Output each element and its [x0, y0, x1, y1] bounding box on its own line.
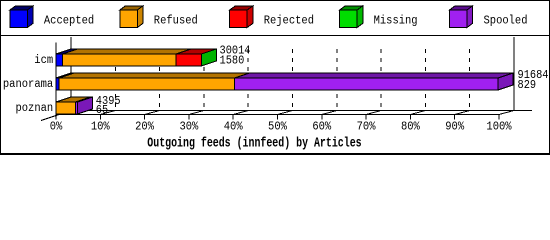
svg-text:30%: 30% [179, 120, 198, 133]
svg-text:90%: 90% [445, 120, 464, 133]
svg-text:Refused: Refused [154, 15, 198, 28]
svg-text:50%: 50% [268, 120, 287, 133]
svg-text:Accepted: Accepted [44, 15, 94, 28]
svg-text:70%: 70% [357, 120, 376, 133]
svg-text:100%: 100% [486, 120, 511, 133]
svg-text:0%: 0% [50, 120, 63, 133]
svg-text:829: 829 [518, 79, 537, 92]
svg-text:80%: 80% [401, 120, 420, 133]
svg-text:40%: 40% [224, 120, 243, 133]
svg-text:Missing: Missing [374, 15, 418, 28]
svg-text:20%: 20% [135, 120, 154, 133]
svg-text:panorama: panorama [3, 78, 53, 91]
svg-text:60%: 60% [312, 120, 331, 133]
svg-text:poznan: poznan [16, 102, 54, 115]
svg-text:10%: 10% [91, 120, 110, 133]
svg-text:1580: 1580 [220, 55, 245, 68]
svg-text:Outgoing feeds (innfeed) by Ar: Outgoing feeds (innfeed) by Articles [147, 135, 361, 151]
svg-text:65: 65 [96, 104, 108, 117]
svg-text:icm: icm [34, 54, 53, 67]
svg-text:Spooled: Spooled [484, 15, 528, 28]
svg-text:Rejected: Rejected [264, 15, 314, 28]
